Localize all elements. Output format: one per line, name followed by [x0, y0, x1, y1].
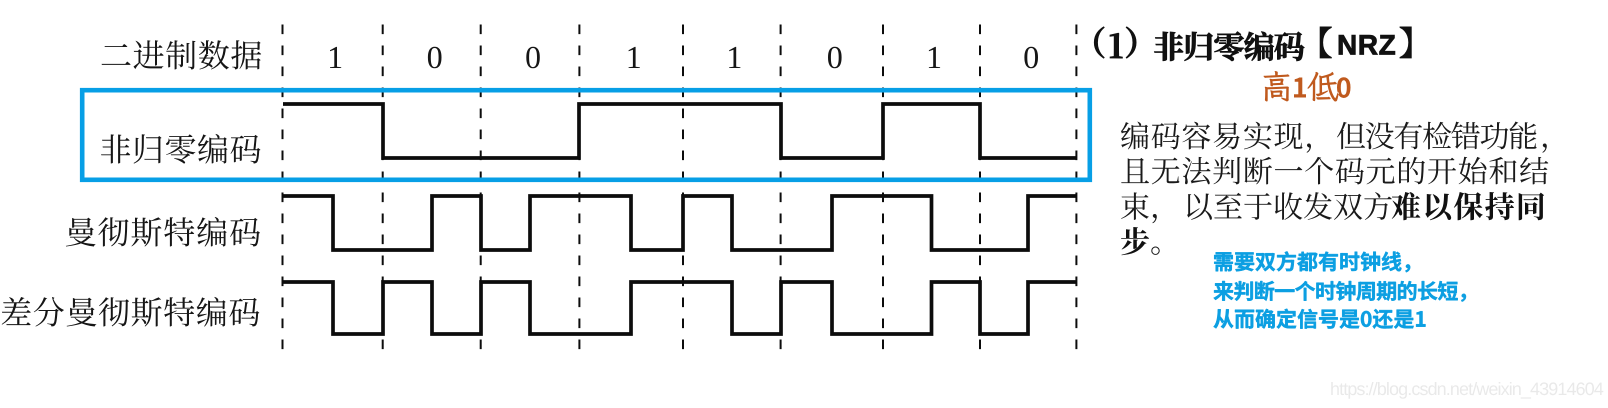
dashed bit-boundary line 9 — [1075, 25, 1077, 350]
blue annotation (clock-line note) — [1214, 251, 1467, 328]
dashed bit-boundary line 8 — [979, 25, 981, 350]
orange note high-1 low-0 (高1低0) — [1264, 71, 1351, 102]
row label: NRZ coding (非归零编码) — [101, 134, 261, 164]
dashed bit-boundary line 1 — [282, 25, 284, 350]
body paragraph (NRZ explanation) — [1121, 122, 1548, 255]
watermark url — [1331, 382, 1603, 399]
NRZ waveform — [283, 104, 1076, 158]
row label: Manchester coding (曼彻斯特编码) — [66, 217, 260, 247]
Differential Manchester waveform — [283, 282, 1076, 334]
binary data digits 1 0 0 1 1 0 1 0 — [330, 47, 1038, 69]
row label: Differential Manchester coding (差分曼彻斯特编码) — [2, 297, 260, 327]
dashed bit-boundary line 4 — [578, 25, 580, 350]
dashed bit-boundary line 5 — [682, 25, 684, 350]
heading (1) NRZ coding title — [1094, 27, 1411, 61]
Manchester waveform — [283, 196, 1076, 250]
dashed bit-boundary line 3 — [480, 25, 482, 350]
dashed bit-boundary line 7 — [882, 25, 884, 350]
row label: binary data (二进制数据) — [102, 40, 262, 69]
dashed bit-boundary line 6 — [780, 25, 782, 350]
blue highlight box (NRZ row) — [82, 90, 1090, 180]
dashed bit-boundary line 2 — [382, 25, 384, 350]
